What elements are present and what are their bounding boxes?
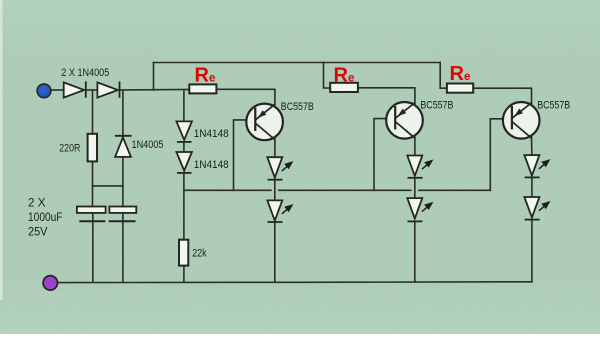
svg-text:1N4148: 1N4148 [194, 159, 229, 171]
svg-text:2 X 1N4005: 2 X 1N4005 [61, 67, 109, 79]
svg-text:220R: 220R [59, 143, 80, 155]
svg-text:2 X: 2 X [28, 195, 46, 209]
svg-text:BC557B: BC557B [537, 100, 570, 112]
svg-text:BC557B: BC557B [281, 101, 314, 113]
svg-text:1N4005: 1N4005 [132, 139, 164, 151]
svg-text:BC557B: BC557B [420, 100, 453, 112]
svg-text:25V: 25V [28, 224, 48, 238]
svg-text:22k: 22k [192, 248, 207, 260]
svg-text:1N4148: 1N4148 [194, 128, 229, 140]
svg-text:1000uF: 1000uF [28, 210, 63, 224]
